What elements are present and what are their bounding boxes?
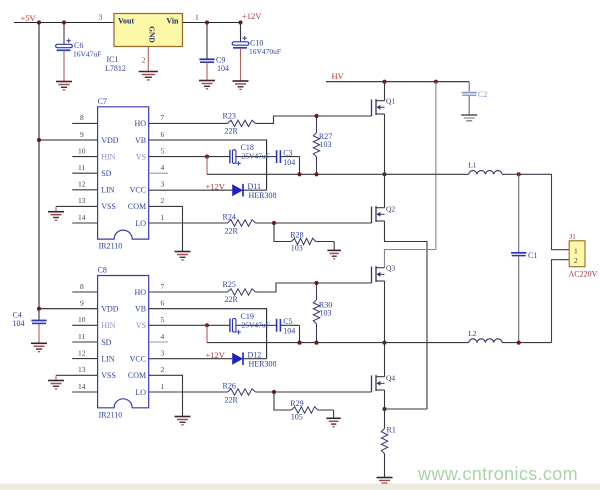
svg-text:22R: 22R [225,295,239,304]
bottom page strip [0,484,600,490]
pin name VDD of C7 [101,136,119,145]
pin number 3 (Vout) [99,13,103,22]
svg-text:1: 1 [574,247,578,256]
wire VDD pin9 of C8 [39,308,98,310]
wire VSS pin13 of C7 [56,205,98,207]
svg-text:3: 3 [99,13,103,22]
ground IC1 [139,72,158,80]
wire HV rail [326,81,469,83]
svg-text:VB: VB [135,136,146,145]
svg-text:AC220V: AC220V [569,270,598,279]
pin number 1 (Vin) [195,13,199,22]
svg-text:HO: HO [135,288,147,297]
transistor Q4 [372,374,396,393]
pin number 8 of C7 [80,113,84,122]
label C8 [98,266,107,275]
pin 14 stub of C8 [72,391,97,393]
pin number 3 of C7 [161,180,165,189]
pin 4 stub of C7 [149,172,168,174]
svg-text:Vin: Vin [166,17,179,26]
wire IC1 GND lead [147,47,149,72]
junction rail R30 [314,341,318,345]
svg-text:C7: C7 [98,97,107,106]
svg-text:103: 103 [320,140,332,149]
pin name VS of C8 [136,321,146,330]
svg-text:D12: D12 [248,350,262,359]
wire VS pin5 of C7 [149,156,207,158]
pin name VSS of C7 [101,202,116,211]
svg-text:COM: COM [128,202,146,211]
pin name VSS of C8 [101,371,116,380]
junction gate Q3 / R30 [314,281,318,285]
svg-text:3: 3 [161,180,165,189]
junction HV at Q3 feed [434,80,438,84]
ground VSS C7 [48,206,64,220]
pin number 14 of C8 [78,382,86,391]
svg-text:22R: 22R [225,395,239,404]
label IC1 [107,55,119,64]
ground R1 [377,478,393,486]
svg-text:VSS: VSS [101,202,116,211]
resistor R24 22R [223,212,256,235]
svg-text:11: 11 [78,163,85,172]
resistor R23 22R [223,111,256,135]
svg-text:R26: R26 [223,381,236,390]
svg-text:VDD: VDD [101,305,119,314]
junction rail R27 [314,172,318,176]
transistor Q2 [372,205,396,224]
svg-text:IR2110: IR2110 [99,242,123,251]
wire VCC pin3 of C8 [149,358,233,360]
pin number 13 of C8 [78,365,86,374]
svg-text:C3: C3 [283,148,292,157]
svg-text:+12V: +12V [206,181,226,191]
pin number 4 of C8 [161,332,165,341]
resistor R29 105 [274,392,334,422]
svg-text:VS: VS [136,321,146,330]
wire VDD pin9 of C7 [39,139,98,141]
wire R26 to gate Q4 [256,391,372,393]
svg-text:14: 14 [78,382,86,391]
wire node A to L1 [385,173,469,175]
pin number 11 of C7 [78,163,85,172]
svg-text:R29: R29 [290,399,303,408]
svg-text:HIN: HIN [101,152,115,161]
svg-text:HER308: HER308 [249,360,277,369]
svg-text:25V47uF: 25V47uF [242,152,270,161]
svg-text:VSS: VSS [101,371,116,380]
capacitor C2 [462,82,488,115]
wire LO pin1 of C8 [149,391,228,393]
svg-text:C1: C1 [528,251,537,260]
svg-text:Q1: Q1 [386,97,395,106]
wire VS rail node B [207,342,385,344]
svg-text:Q4: Q4 [386,374,395,383]
svg-text:11: 11 [78,332,85,341]
svg-text:LO: LO [135,219,146,228]
pin number 10 of C8 [78,315,86,324]
svg-text:D11: D11 [248,182,261,191]
wire Q1 drain [384,82,386,101]
pin name VB of C8 [135,305,146,314]
svg-text:104: 104 [283,327,295,336]
svg-text:3: 3 [161,348,165,357]
svg-text:IR2110: IR2110 [99,410,123,419]
wire L2 to C1 junction [502,342,551,344]
transistor Q3 [372,264,396,284]
pin number 2 of C8 [161,365,165,374]
inductor L2 [468,329,502,343]
pin 10 stub of C7 [72,156,97,158]
pin number 7 of C7 [161,113,165,122]
diode D12 HER308 [232,350,276,368]
svg-text:VB: VB [135,305,146,314]
net label +12V [242,11,262,21]
pin name VDD of C8 [101,305,119,314]
resistor R26 22R [223,381,256,404]
svg-text:IC1: IC1 [107,55,119,64]
svg-text:22R: 22R [225,127,239,136]
wire Q4 drain [384,343,386,377]
pin 14 stub of C7 [72,222,97,224]
capacitor C6 16V47uF [56,23,102,59]
svg-text:L1: L1 [468,161,477,170]
pin number 12 of C8 [78,348,86,357]
net label +12V at D12 [206,350,226,360]
svg-text:9: 9 [80,130,84,139]
wire Q1 source [384,114,386,174]
svg-text:Vout: Vout [118,17,134,26]
pin number 9 of C8 [80,299,84,308]
svg-text:6: 6 [161,130,165,139]
svg-text:LIN: LIN [101,186,115,195]
svg-text:104: 104 [283,158,295,167]
pin 11 stub of C8 [72,341,97,343]
svg-text:SD: SD [101,338,111,347]
resistor R25 22R [223,280,256,304]
svg-text:GND: GND [148,26,157,43]
pin number 8 of C8 [80,282,84,291]
svg-text:1: 1 [161,382,165,391]
transistor Q1 [372,97,396,117]
wire VB pin6 of C8 [149,309,267,359]
junction L2 / C1 [517,341,521,345]
pin number 2 (GND) [142,57,146,65]
pin 11 stub of C7 [72,172,97,174]
pin number 5 of C8 [161,315,165,324]
op-amp-style IC body C8 IR2110 [98,276,149,408]
capacitor C1 [511,174,537,342]
wire VCC pin3 of C7 [149,189,233,191]
pin number 1 of C7 [161,213,165,222]
svg-text:25V47uF: 25V47uF [242,320,270,329]
wire R25 to gate step [256,283,372,292]
pin number 4 of C7 [161,163,165,172]
wire Q2 drain [384,174,386,207]
junction VDD C8 / C4 [37,307,41,311]
svg-text:2: 2 [574,256,578,265]
capacitor C3 104 [267,148,300,174]
svg-text:6: 6 [161,299,165,308]
junction +5V at VDD column [37,20,41,24]
svg-text:VS: VS [136,152,146,161]
pin number 6 of C7 [161,130,165,139]
svg-text:4: 4 [161,332,165,341]
junction gate Q1 / R27 [314,114,318,118]
svg-text:5: 5 [161,146,165,155]
svg-text:R24: R24 [223,212,236,221]
svg-text:5: 5 [161,315,165,324]
pin 8 stub of C7 [72,122,97,124]
pin 12 stub of C8 [72,358,97,360]
svg-text:VDD: VDD [101,136,119,145]
wire R24 to gate Q2 [256,222,372,224]
svg-text:+12V: +12V [242,11,262,21]
pin number 6 of C8 [161,299,165,308]
watermark [417,464,578,484]
svg-text:SD: SD [101,169,111,178]
capacitor C4 104 [13,309,47,328]
capacitor C10 16V470uF [232,23,281,57]
svg-text:9: 9 [80,299,84,308]
ground R29 [326,410,340,427]
svg-text:8: 8 [80,282,84,291]
pin name LO of C8 [135,388,146,397]
pin name LIN of C7 [101,186,115,195]
svg-text:HV: HV [332,71,345,81]
wire Q2 return join [385,408,428,410]
svg-text:R25: R25 [223,280,236,289]
svg-text:C8: C8 [98,266,107,275]
wire VB pin6 of C7 [149,140,267,190]
wire HV to Q3 drain [385,82,436,268]
junction rail C5 [297,341,301,345]
svg-text:HIN: HIN [101,321,115,330]
ground COM C7 [175,252,191,260]
wire +5V rail [14,22,114,24]
svg-text:1: 1 [195,13,199,22]
svg-text:R1: R1 [387,426,396,435]
svg-text:105: 105 [291,413,303,422]
svg-text:COM: COM [128,371,146,380]
wire Q3 source [384,281,386,343]
wire to J1 pin2 [552,260,570,343]
svg-text:Q2: Q2 [386,205,395,214]
wire Q4 source [384,390,386,409]
junction +12V at C9 [205,20,209,24]
wire R23 to gate step [256,116,372,123]
svg-text:LO: LO [135,388,146,397]
junction gate Q4 / R29 [272,390,276,394]
resistor R1 [381,409,396,478]
svg-text:12: 12 [78,180,86,189]
svg-text:L2: L2 [468,329,477,338]
net label +12V at D11 [206,181,226,191]
inductor L1 [468,161,502,175]
pin 4 stub of C8 [149,341,168,343]
svg-text:104: 104 [217,64,229,73]
label C7 [98,97,107,106]
junction Q4 source / Q2 return [382,407,386,411]
pin name SD of C8 [101,338,111,347]
pin number 9 of C7 [80,130,84,139]
junction HV at Q1 drain [382,80,386,84]
junction +12V at C10 [238,20,242,24]
svg-text:C5: C5 [283,317,292,326]
pin name SD of C7 [101,169,111,178]
pin number 12 of C7 [78,180,86,189]
resistor R30 103 [313,283,332,343]
junction rail Q3 source [382,341,386,345]
svg-text:R28: R28 [290,230,303,239]
svg-text:10: 10 [78,315,86,324]
pin 8 stub of C8 [72,291,97,293]
pin number 1 of C8 [161,382,165,391]
pin number 14 of C7 [78,213,86,222]
svg-text:7: 7 [161,113,165,122]
svg-text:16V47uF: 16V47uF [73,50,101,59]
wire Vin to +12V [183,22,241,24]
capacitor C19 25V47uF [207,312,270,343]
junction VS C8 [205,323,209,327]
wire COM pin2 of C8 [149,375,183,416]
wire LO pin1 of C7 [149,222,228,224]
pin name VS of C7 [136,152,146,161]
svg-text:8: 8 [80,113,84,122]
pin number 7 of C8 [161,282,165,291]
svg-text:Q3: Q3 [386,264,395,273]
pin name VB of C7 [135,136,146,145]
pin name HIN of C8 [101,321,115,330]
svg-text:VCC: VCC [130,186,146,195]
wire HO pin7 of C7 [149,122,228,124]
junction VDD C7 [37,138,41,142]
wire VS rail node A [207,173,385,175]
pin number 2 of C7 [161,196,165,205]
svg-text:LIN: LIN [101,354,115,363]
ground R28 [327,242,341,259]
capacitor C5 104 [267,317,300,343]
pin name HIN of C7 [101,152,115,161]
svg-text:+12V: +12V [206,350,226,360]
svg-text:16V470uF: 16V470uF [249,47,281,56]
pin name LO of C7 [135,219,146,228]
svg-text:www.cntronics.com: www.cntronics.com [417,464,578,484]
wire +5V vertical to VDD pins [38,23,40,309]
ground C9 [199,63,215,89]
svg-text:103: 103 [320,309,332,318]
wire VS pin5 of C8 [149,324,207,326]
pin number 11 of C8 [78,332,85,341]
label L7812 [105,64,126,73]
pin number 5 of C7 [161,146,165,155]
junction rail Q1 source [382,172,386,176]
pin name HO of C7 [135,119,147,128]
resistor R27 103 [313,116,332,174]
wire COM pin2 of C7 [149,206,183,251]
regulator IC1 L7812 body [114,14,183,47]
pin name COM of C8 [128,371,146,380]
net label +5V [21,13,37,23]
connector J1 AC220V [569,233,598,278]
svg-text:10: 10 [78,146,86,155]
wire VSS pin13 of C8 [56,374,98,376]
svg-text:VCC: VCC [130,354,146,363]
svg-text:2: 2 [161,365,165,374]
pin 10 stub of C8 [72,324,97,326]
pin name VCC of C8 [130,354,146,363]
svg-text:HO: HO [135,119,147,128]
wire node B to L2 [385,342,469,344]
svg-text:7: 7 [161,282,165,291]
svg-text:13: 13 [78,365,86,374]
ground C2 [461,115,477,121]
svg-text:104: 104 [13,319,25,328]
pin name VCC of C7 [130,186,146,195]
ground VSS C8 [48,375,64,389]
pin name LIN of C8 [101,354,115,363]
svg-text:103: 103 [291,244,303,253]
junction L1 / C1 [517,172,521,176]
svg-text:4: 4 [161,163,165,172]
wire Q2 source to lower bridge [385,221,428,409]
ground C4 [31,324,47,352]
net label HV [332,71,345,81]
capacitor C18 25V47uF [207,143,270,174]
svg-text:14: 14 [78,213,86,222]
svg-text:HER308: HER308 [249,191,277,200]
diode D11 HER308 [232,182,276,200]
pin 12 stub of C7 [72,189,97,191]
svg-text:J1: J1 [570,233,577,241]
svg-text:22R: 22R [225,226,239,235]
label IR2110 of C7 [99,242,123,251]
svg-text:2: 2 [161,196,165,205]
capacitor C9 104 [199,23,229,74]
label IR2110 of C8 [99,410,123,419]
pin name COM of C7 [128,202,146,211]
svg-text:12: 12 [78,348,86,357]
svg-text:13: 13 [78,196,86,205]
ground COM C8 [175,417,191,425]
junction gate Q2 / R28 [272,221,276,225]
svg-text:R23: R23 [223,111,236,120]
svg-text:L7812: L7812 [105,64,126,73]
wire HO pin7 of C8 [149,291,228,293]
junction +5V at C6 [62,20,66,24]
junction VS C7 [205,155,209,159]
svg-text:2: 2 [142,57,146,65]
pin number 10 of C7 [78,146,86,155]
svg-text:C2: C2 [478,90,487,99]
ground C6 [56,51,72,90]
wire L1 to J1 pin1 [502,174,569,249]
junction rail C3 [297,172,301,176]
svg-text:1: 1 [161,213,165,222]
resistor R28 103 [274,223,334,253]
pin number 13 of C7 [78,196,86,205]
ground C10 [233,48,249,89]
pin number 3 of C8 [161,348,165,357]
pin name HO of C8 [135,288,147,297]
svg-text:+5V: +5V [21,13,37,23]
op-amp-style IC body C7 IR2110 [98,107,149,239]
